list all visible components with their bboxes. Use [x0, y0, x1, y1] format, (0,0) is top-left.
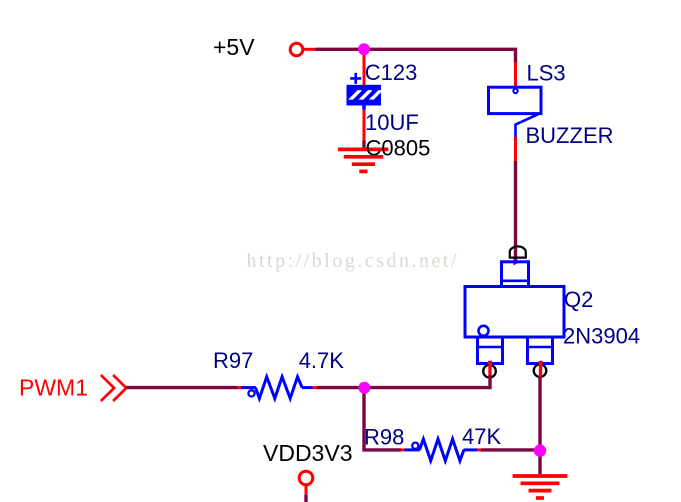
transistor Q2 base pad inner line: [478, 346, 503, 349]
power terminal VDD3V3 circle: [299, 471, 313, 485]
power terminal +5V circle: [290, 43, 303, 56]
ground (below Q2 emitter): [513, 476, 568, 498]
svg-text:2N3904: 2N3904: [563, 324, 640, 349]
svg-text:+5V: +5V: [213, 34, 255, 60]
svg-text:R98: R98: [364, 425, 404, 450]
svg-text:C0805: C0805: [366, 135, 431, 160]
transistor Q2 collector pad: [502, 262, 529, 287]
svg-text:PWM1: PWM1: [19, 375, 88, 401]
transistor Q2 emitter pin circle: [534, 364, 547, 377]
svg-text:C123: C123: [365, 60, 418, 85]
resistor R97 zigzag: [256, 377, 303, 399]
resistor R97 left lead (blue): [241, 386, 256, 389]
transistor Q2 collector pad inner line: [502, 279, 529, 282]
svg-text:http://blog.csdn.net/: http://blog.csdn.net/: [247, 250, 460, 272]
resistor R98 left lead (blue): [405, 448, 420, 451]
wire VDD3V3 down (off-page): [304, 495, 307, 502]
svg-text:VDD3V3: VDD3V3: [263, 440, 352, 466]
resistor R98 pin circle: [412, 443, 418, 449]
wire junction to ground: [538, 451, 541, 475]
port PWM1 chevrons: [101, 375, 126, 401]
resistor R98 right pin (red): [477, 448, 482, 451]
resistor R98 left pin (red): [401, 448, 406, 451]
node junction emitter/ground: [534, 444, 546, 456]
capacitor C123 hatch gaps: [348, 90, 382, 103]
svg-text:BUZZER: BUZZER: [526, 123, 614, 148]
svg-text:10UF: 10UF: [365, 110, 419, 135]
transistor Q2 emitter pad: [528, 337, 553, 364]
transistor Q2 collector dome: [510, 246, 526, 257]
transistor Q2 pin-1 marker circle: [479, 326, 489, 336]
resistor R98 zigzag: [420, 439, 464, 461]
transistor Q2 base pin circle: [483, 365, 496, 378]
node junction +5V/C123: [358, 43, 370, 55]
transistor Q2 emitter pad inner line: [528, 346, 553, 349]
capacitor C123 plus sign: [350, 73, 361, 84]
buzzer LS3 bottom lead (blue bend): [516, 114, 540, 138]
wire PWM1 to R97: [126, 386, 238, 389]
resistor R97 right pin (red): [313, 386, 318, 389]
resistor R97 pin circle: [248, 390, 254, 396]
wire Q2 emitter down: [538, 377, 541, 451]
transistor Q2 emitter pin tick (red): [539, 363, 542, 377]
transistor Q2 base pad: [478, 337, 503, 364]
svg-text:R97: R97: [213, 348, 253, 373]
capacitor C123 pin 2 stub (blue): [362, 106, 365, 111]
transistor Q2 emitter pad red dot: [539, 361, 543, 365]
wire junction down to R98: [364, 388, 401, 450]
svg-text:47K: 47K: [462, 424, 501, 449]
svg-text:Q2: Q2: [564, 287, 593, 312]
buzzer LS3 pin 1 (red): [514, 62, 517, 89]
transistor Q2 base pin tick (red): [488, 363, 491, 376]
transistor Q2 collector pin arrow (red): [513, 259, 519, 265]
buzzer LS3 body: [489, 87, 542, 113]
wire R98 to emitter junction: [481, 448, 540, 451]
resistor R97 right lead (blue): [302, 386, 313, 389]
capacitor C123 pin 2 (red): [363, 110, 366, 142]
capacitor C123 plates body: [347, 85, 382, 106]
wire R97 to junction: [317, 386, 366, 389]
power terminal +5V stub: [303, 48, 316, 51]
capacitor C123 pin 1 (red, from junction to top plate): [363, 49, 366, 88]
transistor Q2 body: [465, 287, 564, 338]
resistor R97 left pin (red): [237, 386, 242, 389]
buzzer LS3 pin 2 (red): [514, 137, 517, 162]
wire +5V to buzzer (horizontal + corner down): [316, 49, 516, 62]
power terminal VDD3V3 stub (red): [305, 485, 308, 495]
buzzer LS3 pin hole circle: [513, 89, 517, 93]
ground (below C123): [338, 149, 388, 171]
wire buzzer to Q2 collector: [514, 161, 517, 262]
svg-text:LS3: LS3: [527, 61, 566, 86]
wire Q2 base to PWM net: [362, 375, 490, 388]
resistor R98 right lead (blue): [464, 448, 478, 451]
node junction base/R98: [358, 382, 370, 394]
wire C123 to ground: [362, 141, 365, 150]
transistor Q2 base pad red dot: [488, 361, 492, 365]
svg-text:4.7K: 4.7K: [299, 348, 345, 373]
